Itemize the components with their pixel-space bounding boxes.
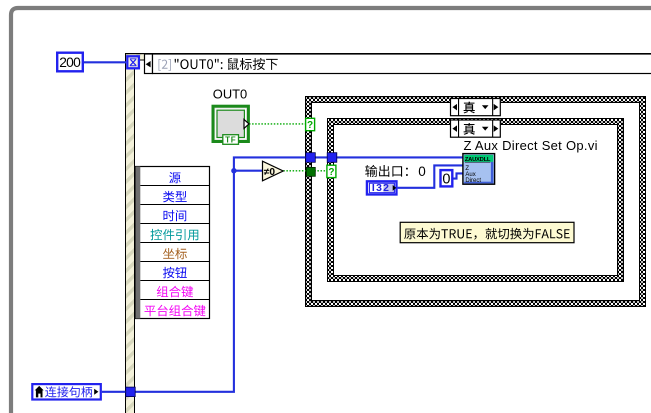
svg-text:TF: TF	[225, 136, 236, 145]
boolean wire neq0 to inner case selector	[283, 170, 327, 172]
case selector label inner 真	[451, 120, 501, 137]
wire I32 to subVI	[398, 165, 463, 187]
event structure border top	[125, 53, 651, 61]
wire junction	[231, 168, 236, 173]
svg-text:I32: I32	[372, 183, 390, 194]
comparison node neq-0	[263, 161, 284, 181]
event case selector arrow cell	[145, 54, 153, 74]
event data item 组合键	[157, 286, 193, 298]
wire 0 to subVI	[454, 173, 463, 178]
svg-text:0: 0	[418, 164, 426, 179]
event data item 按钮	[163, 267, 187, 279]
tunnel inner case (blue)	[327, 153, 337, 163]
event data item 源	[169, 172, 181, 183]
event case label [2] OUT0 mouse-down	[153, 54, 651, 74]
numeric constant I32 (输出口)	[367, 181, 397, 194]
tunnel (event border, handle wire)	[126, 387, 136, 397]
svg-text:200: 200	[59, 55, 81, 70]
svg-text:0: 0	[442, 171, 450, 187]
boolean terminal OUT0	[213, 106, 249, 144]
wire 200 to timeout	[84, 61, 126, 63]
case structure inner (true case)	[328, 119, 624, 282]
event timeout terminal (hourglass)	[127, 56, 139, 68]
svg-text:?: ?	[328, 167, 334, 178]
wire: connection handle main run	[102, 157, 463, 391]
event structure border left	[125, 53, 135, 413]
case selector terminal inner ?	[327, 165, 336, 178]
tunnel outer case (blue)	[306, 153, 316, 163]
event data item 类型	[163, 191, 187, 202]
svg-text:≠0: ≠0	[264, 167, 276, 178]
svg-text:Aux: Aux	[465, 172, 475, 178]
wire branch to not-equal-zero	[234, 170, 263, 172]
svg-text:OUT0: OUT0	[213, 87, 247, 102]
local reference 连接句柄	[32, 384, 101, 399]
free label 原本为TRUE就切换为FALSE	[400, 222, 574, 242]
event data node box	[136, 167, 210, 319]
boolean wire OUT0 to outer case selector	[249, 123, 306, 125]
case structure outer (true case)	[306, 97, 646, 307]
svg-text:Z Aux Direct Set Op.vi: Z Aux Direct Set Op.vi	[464, 138, 598, 153]
event data item 时间	[164, 210, 187, 221]
event data item 平台组合键	[145, 305, 206, 317]
numeric constant 0	[441, 170, 453, 187]
svg-text:Z: Z	[465, 166, 469, 172]
numeric constant 200	[57, 53, 83, 72]
subVI Z Aux Direct Set Op.vi	[463, 154, 495, 185]
svg-text:Direct: Direct	[465, 178, 481, 184]
label 输出口: 0	[365, 165, 408, 177]
svg-text:ZAUXDLL: ZAUXDLL	[465, 157, 491, 163]
tunnel outer case (green boolean)	[306, 167, 315, 176]
event data item 控件引用	[151, 229, 199, 241]
case selector terminal outer ?	[306, 118, 315, 131]
event data item 坐标	[163, 248, 187, 259]
svg-text:?: ?	[307, 120, 313, 131]
case selector label outer 真	[451, 99, 501, 116]
